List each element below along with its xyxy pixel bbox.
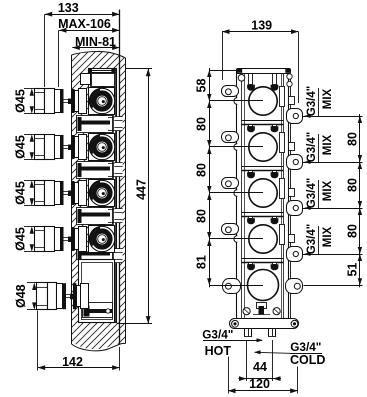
trim piece row 4 — [289, 235, 295, 243]
trim piece row 1 — [289, 97, 295, 105]
bottom plate screws — [232, 320, 239, 327]
port flange 3 — [79, 181, 87, 206]
port flange 4 — [79, 227, 87, 252]
body joint lines — [242, 120, 284, 122]
wall break line top — [72, 51, 126, 58]
inlet stubs hot/cold — [244, 329, 246, 337]
wall rear edge — [71, 55, 73, 344]
svg-text:80: 80 — [345, 178, 359, 192]
inter-body connector 4 — [77, 247, 113, 260]
cartridge retainer row 4 — [280, 225, 285, 245]
wall finished face line — [119, 10, 121, 345]
body top inner box — [92, 74, 115, 87]
svg-text:133: 133 — [58, 1, 79, 15]
svg-text:MIX: MIX — [322, 226, 334, 247]
cartridge cap circles — [89, 180, 114, 205]
dimension 120 — [228, 357, 230, 394]
bottom plate — [230, 319, 299, 329]
svg-text:G3/4": G3/4" — [306, 178, 318, 208]
svg-text:G3/4": G3/4" — [306, 132, 318, 162]
port clip row 5 — [63, 283, 67, 309]
mounting tab row5 left — [223, 279, 241, 294]
dimension 447 — [126, 68, 153, 70]
port retaining clip — [60, 135, 64, 159]
thermostat bore — [248, 270, 279, 301]
svg-text:80: 80 — [345, 132, 359, 146]
port retaining clip — [60, 89, 64, 113]
trim piece row 2 — [289, 143, 295, 151]
svg-text:120: 120 — [249, 377, 270, 391]
right dimension chain 80/80/80/51 — [359, 114, 361, 287]
body joint lines — [242, 166, 284, 168]
body top-left step — [81, 74, 91, 85]
wall pass-through 4 — [114, 249, 122, 263]
inlet port G3/4 row 1 — [35, 89, 45, 114]
top plate screws — [238, 75, 245, 82]
diameter 45 label row 2 — [24, 134, 35, 136]
wall pass-through 1 — [114, 117, 122, 131]
diameter 45 label row 4 — [24, 226, 35, 228]
wall front edge — [125, 58, 127, 344]
wall break line bottom — [72, 343, 126, 350]
svg-text:Ø48: Ø48 — [14, 284, 28, 308]
valve body column side view — [89, 69, 117, 323]
svg-text:Ø45: Ø45 — [13, 181, 27, 205]
dimension 44 — [246, 340, 248, 381]
svg-text:139: 139 — [251, 19, 272, 33]
cartridge bore row 2 — [249, 133, 277, 161]
inter-body connector 1 — [77, 116, 113, 133]
side bump row 1 — [234, 98, 237, 105]
svg-text:81: 81 — [194, 255, 208, 269]
svg-text:44: 44 — [253, 360, 267, 374]
diameter 45 label row 1 — [24, 88, 35, 90]
retaining bolt — [249, 171, 253, 173]
cartridge cap circles — [89, 88, 114, 113]
left dimension chain 58/80/80/80/81 — [209, 68, 211, 287]
G3/4 MIX labels — [304, 114, 311, 118]
svg-text:G3/4": G3/4" — [202, 327, 233, 341]
port flange 2 — [79, 135, 87, 160]
cartridge retainer row 3 — [280, 179, 285, 199]
outlet stub row 2 — [287, 155, 303, 170]
retaining bolt — [273, 74, 277, 85]
white gap between body and wall face — [117, 69, 120, 323]
svg-text:58: 58 — [194, 79, 208, 93]
inlet port G3/4 row 5 — [37, 283, 48, 310]
cartridge cap circles — [89, 134, 114, 159]
thermostat housing (side) — [79, 260, 115, 323]
inlet port G3/4 row 4 — [35, 227, 45, 252]
mounting tab row 4 — [222, 224, 239, 235]
inter-body connector 2 — [77, 162, 113, 179]
svg-text:MIX: MIX — [322, 88, 334, 109]
svg-text:Ø45: Ø45 — [13, 135, 27, 159]
side bump row 3 — [234, 190, 237, 197]
inlet port G3/4 row 3 — [35, 181, 45, 206]
inter-body connector 3 — [77, 208, 113, 225]
body joint lines — [242, 258, 284, 260]
valve cartridge housing 1 (side) — [89, 88, 115, 115]
svg-text:80: 80 — [345, 224, 359, 238]
svg-text:447: 447 — [134, 179, 148, 200]
mounting tab row 3 — [222, 178, 239, 189]
top plate — [237, 69, 291, 74]
svg-text:80: 80 — [194, 117, 208, 131]
mounting tab row 2 — [222, 132, 239, 143]
svg-text:COLD: COLD — [290, 353, 325, 367]
cartridge cap circles — [89, 226, 114, 251]
side bump row 2 — [234, 144, 237, 151]
svg-text:51: 51 — [345, 263, 359, 277]
svg-text:80: 80 — [194, 209, 208, 223]
svg-text:142: 142 — [62, 355, 83, 369]
inlet port G3/4 row 2 — [35, 135, 45, 160]
side bump row 4 — [234, 236, 237, 243]
cartridge bore row 3 — [249, 179, 277, 207]
retaining bolt row 5 — [249, 263, 253, 265]
retaining bolt — [249, 125, 253, 127]
wall pass-through 2 — [114, 163, 122, 177]
port retaining clip — [60, 227, 64, 251]
body joint lines — [242, 212, 284, 214]
body top cap — [88, 70, 117, 72]
bottom internals — [243, 308, 250, 315]
svg-text:MIX: MIX — [322, 180, 334, 201]
retaining bolt — [273, 171, 277, 173]
retaining bolt — [273, 125, 277, 127]
outlet stub row 3 — [287, 201, 303, 216]
wall section hatch — [72, 51, 126, 349]
cartridge bore row 4 — [249, 225, 277, 253]
front view body — [237, 73, 289, 319]
dimension 142 — [37, 311, 39, 371]
outlet stub row 4 — [287, 247, 303, 262]
cartridge retainer row 1 — [280, 87, 285, 107]
port flange row 5 — [77, 286, 81, 307]
wall pass-through 3 — [114, 209, 122, 223]
retaining bolt — [249, 217, 253, 219]
valve cartridge housing 4 (side) — [89, 226, 115, 253]
svg-text:G3/4": G3/4" — [306, 86, 318, 116]
mounting tab row5 right — [286, 279, 303, 294]
mounting tab row 1 — [222, 86, 239, 97]
diameter 48 label — [27, 282, 38, 284]
svg-text:Ø45: Ø45 — [13, 89, 27, 113]
port flange 1 — [79, 89, 87, 114]
port retaining clip — [60, 181, 64, 205]
retaining bolt — [273, 217, 277, 219]
svg-text:MIX: MIX — [322, 134, 334, 155]
cartridge bore row 1 — [249, 87, 277, 115]
outlet stub row 1 — [287, 109, 303, 124]
retaining bolt — [249, 74, 253, 85]
valve cartridge housing 3 (side) — [89, 180, 115, 207]
svg-text:Ø45: Ø45 — [13, 227, 27, 251]
valve cartridge housing 2 (side) — [89, 134, 115, 161]
svg-text:80: 80 — [194, 163, 208, 177]
svg-text:HOT: HOT — [205, 344, 232, 358]
cartridge retainer row 2 — [280, 133, 285, 153]
trim piece row 3 — [289, 189, 295, 197]
svg-text:G3/4": G3/4" — [306, 224, 318, 254]
diameter 45 label row 3 — [24, 180, 35, 182]
retaining bolt row 5 — [273, 263, 277, 265]
